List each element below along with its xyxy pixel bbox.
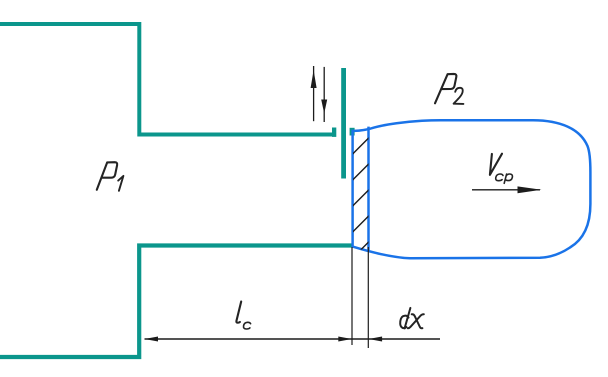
- arrowhead left-pointing (dx): [369, 337, 383, 342]
- flapper plate (teal vertical): [341, 68, 346, 179]
- wire: upper chamber wall (teal, top-left L-shape into channel top wall): [0, 24, 336, 135]
- label dx: [400, 308, 424, 329]
- velocity arrow Vcp: [472, 189, 540, 191]
- node: nozzle lip tab at end of upper channel wall: [332, 128, 336, 137]
- jet plume boundary P2 (blue outline): [353, 120, 591, 258]
- hatching of dx slab: [350, 110, 371, 261]
- extension line at x=352: [351, 247, 353, 345]
- wire: dx slab right boundary (blue): [367, 127, 370, 251]
- arrowhead right-pointing (lc right end): [338, 337, 352, 342]
- arrowhead left (lc left end): [145, 337, 159, 342]
- label Vcp: [490, 154, 513, 184]
- extension line at x=368.3: [367, 247, 369, 348]
- label P2: [435, 74, 463, 104]
- flapper motion arrow up: [313, 66, 315, 121]
- dimension line lc / dx: [145, 338, 441, 340]
- label lc: [236, 302, 250, 330]
- node: nozzle lip tab right of flapper gap: [350, 128, 355, 136]
- wire: lower chamber wall (teal, channel bottom wall into bottom-left L-shape): [0, 246, 352, 358]
- label P1: [97, 162, 124, 191]
- flapper motion arrow down: [323, 67, 325, 122]
